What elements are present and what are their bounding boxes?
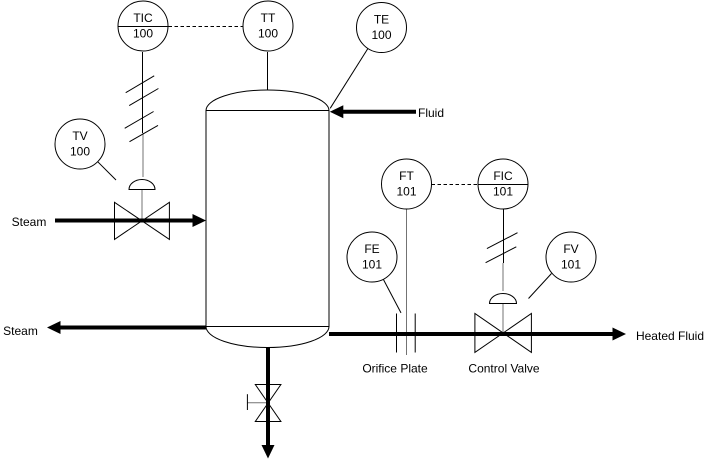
leader line TV-100 to actuator [97, 161, 116, 180]
pipe: fluid inlet line [330, 105, 416, 118]
pipe: steam inlet line [55, 214, 206, 227]
pipe: heated fluid outlet line [329, 328, 626, 341]
instrument bubble FIC-101 [478, 159, 528, 209]
instrument bubble TIC-100 [118, 1, 168, 51]
svg-text:FV: FV [563, 242, 578, 256]
instrument bubble FV-101 [546, 232, 596, 282]
svg-text:100: 100 [133, 27, 153, 41]
svg-text:100: 100 [371, 28, 391, 42]
svg-text:FE: FE [364, 242, 379, 256]
wire: FT-101 drop line to orifice plate [406, 210, 408, 356]
svg-text:Orifice Plate: Orifice Plate [362, 362, 428, 376]
pneumatic slashes on FIC signal [486, 233, 518, 263]
svg-text:101: 101 [362, 258, 382, 272]
wire: dashed signal TIC-100 to TT-100 [169, 26, 243, 28]
svg-text:TE: TE [374, 13, 389, 27]
pipe: steam outlet line [47, 321, 206, 334]
instrument bubble FT-101 [382, 159, 432, 209]
svg-text:101: 101 [396, 185, 416, 199]
wire: signal line TIC-100 to valve TV-100 [142, 52, 145, 177]
instrument bubble FE-101 [347, 232, 397, 282]
orifice plate FE-101 symbol [397, 314, 416, 353]
leader line FE-101 to orifice plate [384, 280, 402, 313]
svg-text:Steam: Steam [3, 324, 38, 338]
leader line TE-100 to vessel inlet [330, 49, 368, 109]
svg-text:Steam: Steam [12, 215, 47, 229]
svg-text:FT: FT [399, 169, 414, 183]
svg-text:Fluid: Fluid [418, 106, 444, 120]
svg-text:TIC: TIC [133, 11, 153, 25]
svg-text:101: 101 [493, 185, 513, 199]
control valve FV-101 (heated fluid) with diaphragm actuator [475, 294, 532, 353]
svg-text:Control Valve: Control Valve [468, 362, 539, 376]
svg-text:100: 100 [258, 27, 278, 41]
wire: dashed signal FT-101 to FIC-101 [432, 184, 479, 186]
wire: TT-100 connection to vessel [267, 52, 269, 91]
svg-text:TV: TV [72, 129, 87, 143]
instrument bubble TV-100 [55, 119, 105, 169]
leader line FV-101 to actuator [529, 274, 552, 299]
control valve TV-100 (steam) with diaphragm actuator [115, 180, 170, 240]
vessel V-100 tank body [206, 90, 329, 347]
instrument bubble TT-100 [243, 1, 293, 51]
manual drain valve (vertical) [247, 385, 281, 422]
svg-text:100: 100 [70, 145, 90, 159]
instrument bubble TE-100 [357, 3, 407, 53]
wire: signal line FIC-101 to valve FV-101 [502, 210, 505, 292]
svg-text:TT: TT [261, 11, 276, 25]
svg-text:Heated Fluid: Heated Fluid [636, 329, 704, 343]
pneumatic slashes on TIC signal [125, 76, 159, 142]
pipe: bottom drain line [262, 348, 275, 459]
svg-text:FIC: FIC [493, 169, 513, 183]
svg-text:101: 101 [561, 258, 581, 272]
